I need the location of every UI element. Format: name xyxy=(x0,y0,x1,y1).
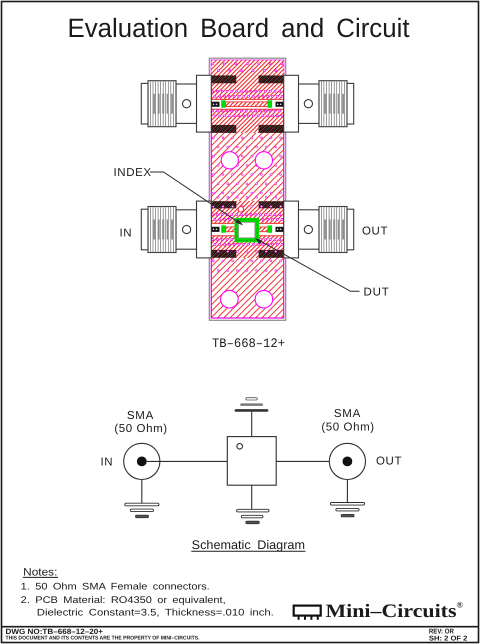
SMA connector J2 (thru right) body xyxy=(299,84,320,123)
ground symbol under J1 xyxy=(125,503,159,518)
DUT leader arrowhead xyxy=(255,238,263,245)
connector J1 circle (IN) xyxy=(124,443,160,479)
thru-line white channel xyxy=(211,99,283,109)
svg-text:OUT: OUT xyxy=(362,226,388,238)
svg-text:Notes:: Notes: xyxy=(23,566,57,578)
svg-text:SMA: SMA xyxy=(127,410,154,422)
DUT-line edge launch pads xyxy=(211,227,219,232)
connector J1 center pin xyxy=(137,457,147,467)
via holes grid xyxy=(212,63,284,272)
svg-text:DWG NO:TB–668–12–20+: DWG NO:TB–668–12–20+ xyxy=(6,627,104,636)
wire J1 to ground xyxy=(141,480,143,504)
thru-line microstrip trace xyxy=(226,102,268,107)
connector J2 circle (OUT) xyxy=(329,443,365,479)
SMA connector J3 (IN) body xyxy=(176,210,197,249)
SMA connector J3 (IN) flange block xyxy=(197,201,212,258)
connector J2 center pin xyxy=(343,457,353,467)
copper ground band top xyxy=(211,60,283,99)
svg-text:®: ® xyxy=(457,600,464,610)
mounting hole top-right xyxy=(255,152,272,169)
DUT leader wire xyxy=(258,240,360,292)
svg-text:1. 50 Ohm SMA Female connecto: 1. 50 Ohm SMA Female connectors. xyxy=(21,581,210,592)
INDEX leader arrowhead xyxy=(236,219,244,226)
svg-text:TB–668–12+: TB–668–12+ xyxy=(212,336,285,351)
wire DUT to OUT xyxy=(276,460,329,462)
wire DUT to top ground xyxy=(251,412,253,437)
top ground symbol (inverted) xyxy=(235,398,269,412)
SMA connector J4 (OUT) coupling nut xyxy=(319,207,347,253)
thru-line edge launch pads xyxy=(211,102,219,107)
SMA connector J4 (OUT) body xyxy=(299,210,320,249)
pad row 4 xyxy=(211,250,236,258)
svg-text:Evaluation Board and Circuit: Evaluation Board and Circuit xyxy=(68,13,411,43)
copper band below thru-line xyxy=(211,109,283,133)
svg-text:OUT: OUT xyxy=(376,456,402,468)
wire J2 to ground xyxy=(346,480,348,503)
copper band above DUT line xyxy=(211,201,283,224)
SMA connector J3 (IN) end cap xyxy=(141,209,148,250)
mounting hole bottom-left xyxy=(221,290,239,308)
svg-text:SH: 2 OF 2: SH: 2 OF 2 xyxy=(429,635,468,642)
svg-text:IN: IN xyxy=(120,228,133,240)
INDEX leader wire xyxy=(150,172,240,223)
title block top line xyxy=(2,626,479,628)
wire DUT to bottom ground xyxy=(251,485,253,509)
SMA connector J1 (thru left) coupling nut xyxy=(148,81,176,127)
mounting hole bottom-right xyxy=(255,290,273,308)
svg-text:Dielectric Constant=3.5, Thick: Dielectric Constant=3.5, Thickness=.010 … xyxy=(37,607,274,618)
SMA connector J1 (thru left) body xyxy=(176,84,197,123)
SMA connector J1 (thru left) end cap xyxy=(141,83,148,124)
mounting hole top-left xyxy=(221,152,238,169)
DUT-line left trace xyxy=(226,227,239,232)
svg-text:Schematic Diagram: Schematic Diagram xyxy=(192,538,305,552)
SMA connector J2 (thru right) coupling nut xyxy=(319,81,347,127)
SMA connector J1 (thru left) flange block xyxy=(197,75,212,132)
PCB substrate hatched area xyxy=(211,60,283,318)
svg-text:(50 Ohm): (50 Ohm) xyxy=(114,423,167,435)
ground symbol under J2 xyxy=(330,503,364,517)
svg-text:Mini–Circuits: Mini–Circuits xyxy=(326,601,457,622)
pad row 1 xyxy=(211,75,236,83)
pad row 3 xyxy=(211,201,236,208)
wire IN to DUT xyxy=(147,460,228,462)
svg-text:(50 Ohm): (50 Ohm) xyxy=(321,422,374,434)
copper band below DUT line xyxy=(211,236,283,258)
SMA connector J2 (thru right) flange block xyxy=(284,75,299,132)
svg-text:THIS DOCUMENT AND ITS CONT: THIS DOCUMENT AND ITS CONTENTS ARE THE P… xyxy=(6,636,200,642)
DUT pin-1 marker xyxy=(237,444,243,450)
index hole xyxy=(238,207,243,212)
ground symbol under DUT xyxy=(237,509,269,523)
DUT body xyxy=(239,222,255,237)
svg-text:IN: IN xyxy=(101,457,114,469)
pad row 2 xyxy=(211,125,236,133)
thru-line green solder marks xyxy=(221,100,226,107)
svg-text:2. PCB Material: RO4350 or eq: 2. PCB Material: RO4350 or equivalent, xyxy=(21,595,226,606)
SMA connector J2 (thru right) end cap xyxy=(347,83,354,124)
DUT-line green solder marks xyxy=(221,225,226,232)
DUT box xyxy=(227,437,276,486)
DUT-line white channel xyxy=(211,223,283,235)
SMA connector J4 (OUT) end cap xyxy=(347,209,354,250)
svg-text:SMA: SMA xyxy=(334,408,361,420)
SMA connector J3 (IN) coupling nut xyxy=(148,207,176,253)
PCB board outline (gray) xyxy=(209,58,285,320)
DUT-line right trace xyxy=(256,227,268,232)
DUT green land pattern xyxy=(235,218,260,242)
svg-text:INDEX: INDEX xyxy=(114,167,152,179)
svg-text:DUT: DUT xyxy=(364,287,390,299)
Mini-Circuits logo icon xyxy=(294,606,321,620)
SMA connector J4 (OUT) flange block xyxy=(284,201,299,258)
